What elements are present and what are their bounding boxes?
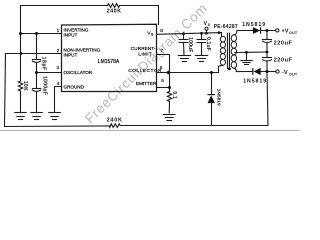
bottom scan edge [0,129,300,131]
svg-text:1N5819: 1N5819 [215,89,221,106]
ground for 1000pF [31,113,42,120]
svg-text:1000pF: 1000pF [42,76,48,95]
wire collector step to primary [219,65,223,72]
svg-text:4: 4 [57,81,60,87]
svg-text:1N5819: 1N5819 [243,79,267,85]
svg-text:INPUT: INPUT [64,32,78,37]
wire 10K to ground [20,91,22,113]
transformer T1 secondary winding [231,35,236,68]
diode D3 1N5819 vertical [208,95,215,104]
wire 220uF lower to -V line [266,62,268,72]
svg-text:1N5819: 1N5819 [242,22,266,28]
capacitor 1000pF [32,89,40,92]
arrow junction at pin2 [20,51,23,55]
capacitor 0.1uF [197,40,206,43]
svg-text:18pF: 18pF [40,57,46,71]
wire 0.1 resistor to ground [168,102,170,112]
wire Vs terminal stub [206,30,208,33]
wire collector node down to diode D3 [211,73,213,95]
ground for pin 4 [49,113,60,120]
svg-text:LIMIT: LIMIT [138,51,152,56]
svg-text:0.1: 0.1 [171,91,177,99]
diode D2 1N5819 bottom right [253,68,261,75]
svg-text:COLLECTOR: COLLECTOR [128,68,162,73]
resistor 240K top zigzag [108,4,120,8]
wire oscillator node to 1000pF [36,73,38,88]
svg-text:OUT: OUT [289,72,298,76]
wire top feedback to IC corner [120,6,159,25]
wire left rail [5,54,6,127]
svg-text:OSCILLATOR: OSCILLATOR [64,70,93,75]
wire pin 4 ground pin [55,87,62,113]
wire pin 3 oscillator line [37,72,62,74]
node -Vout terminal circle [276,70,279,73]
wire left vertical pin1 to pin2 to 10K [20,34,22,82]
wire bottom bus right segment [120,125,268,127]
wire pin 2 line [6,53,62,55]
wire 100uF to ground [183,43,186,56]
resistor 240K bottom zigzag [109,124,120,128]
svg-text:7: 7 [160,48,163,54]
svg-text:10K: 10K [22,81,28,92]
capacitor 220uF upper [263,40,272,43]
svg-text:240K: 240K [107,9,122,15]
ground for 100uF [178,56,190,62]
wire 1000pF to ground [36,92,38,113]
capacitor 220uF lower [263,58,272,62]
wire 220uF upper to center node [266,43,268,52]
wire secondary center tap [235,51,267,54]
svg-text:220uF: 220uF [274,58,293,64]
op-amp U1 LM1578A box [62,24,157,91]
capacitor 100uF [179,40,188,43]
transformer T1 primary winding [220,36,225,65]
wire secondary top to diode [234,31,253,35]
transformer phase dot secondary [228,68,231,71]
wire pin 6 collector line [157,72,219,74]
resistor 10K zigzag [18,81,22,91]
ground for 0.1 resistor [163,115,175,121]
svg-text:3: 3 [56,65,59,71]
ground for 10K [15,113,26,120]
wire diode D1 to +Vout [261,30,276,32]
svg-text:INPUT: INPUT [64,52,78,57]
wire -V rail down to bottom bus [267,72,268,126]
svg-text:100uF: 100uF [187,37,193,52]
svg-text:1: 1 [57,28,60,34]
svg-text:LM1578A: LM1578A [98,59,120,65]
wire pin1 node down to 18pF [36,34,38,60]
svg-text:OUT: OUT [289,31,298,35]
resistor 0.1 zigzag [167,91,171,102]
wire 0.1uF stub [201,33,203,39]
svg-text:0.1uF: 0.1uF [205,37,211,51]
capacitor 18pF [32,60,40,63]
svg-text:GROUND: GROUND [64,84,85,89]
svg-text:CURRENT-: CURRENT- [131,46,156,51]
wire tap ground stub [246,52,248,60]
wire 100uF stub [183,34,185,40]
node +Vout terminal circle [276,29,279,32]
wire pin 7 current limit to emitter node [157,55,170,88]
wire bottom bus left segment [5,125,110,128]
svg-text:EMITTER: EMITTER [136,81,157,86]
node Vs terminal circle [205,27,208,30]
svg-text:+V: +V [281,29,288,35]
pin numbers [56,28,164,87]
junction dots [19,29,269,89]
wire pin 5 emitter stub [157,87,170,89]
svg-text:PE-64287: PE-64287 [214,24,238,30]
wire pin 8 Vs bus [157,33,222,37]
wire diode D2 to -Vout [261,71,276,73]
svg-text:2: 2 [57,48,60,54]
wire emitter node to 0.1 resistor [169,88,171,92]
wire 0.1uF to ground [201,43,203,56]
ground for 0.1uF [195,56,207,62]
ground for center tap [241,61,252,65]
wire pin 1 line [21,33,62,35]
wire top feedback loop left vertical [21,6,108,34]
IC interior labels [64,27,163,89]
diode D1 1N5819 top [253,27,261,34]
wire +V rail to 220uF top [266,31,268,40]
wire 18pF to oscillator node [36,63,38,73]
svg-text:240K: 240K [107,117,123,123]
svg-text:220uF: 220uF [274,41,293,47]
transformer core [228,33,230,68]
wire secondary bottom to diode D2 [234,68,253,71]
arrow junction at collector [166,70,169,74]
transformer phase dot primary [218,31,221,34]
svg-text:5: 5 [161,78,164,84]
wire diode D3 to bottom bus [211,103,213,126]
svg-text:-V: -V [282,70,288,76]
svg-text:8: 8 [160,28,163,34]
wire center node to 220uF lower [266,52,268,58]
